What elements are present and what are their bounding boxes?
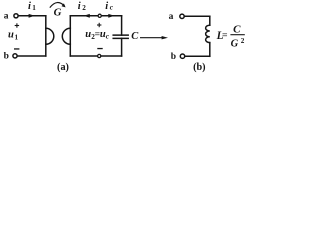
svg-text:(b): (b) xyxy=(193,62,205,73)
svg-text:2: 2 xyxy=(241,37,245,45)
gyrator left semicircle xyxy=(46,28,54,44)
svg-text:G: G xyxy=(231,38,239,49)
svg-text:1: 1 xyxy=(15,34,19,42)
svg-text:u: u xyxy=(8,30,14,41)
svg-text:a: a xyxy=(169,12,174,22)
svg-text:b: b xyxy=(4,52,9,62)
gyrator arc arrowhead xyxy=(62,3,66,7)
node on bottom wire of port2 xyxy=(98,54,101,57)
current arrow ic (pointing right) xyxy=(108,14,114,18)
terminal b (left circuit) xyxy=(13,54,17,58)
inductor L coil xyxy=(206,25,210,42)
capacitor branch lower stub xyxy=(121,38,123,56)
svg-text:1: 1 xyxy=(32,4,36,12)
wire b to gyrator port1 bottom xyxy=(17,55,46,57)
svg-text:b: b xyxy=(171,52,176,62)
capacitor C bottom plate xyxy=(113,37,128,39)
equivalence arrow xyxy=(140,37,164,39)
fraction bar xyxy=(230,34,244,36)
minus sign of u2 xyxy=(97,48,102,49)
svg-text:C: C xyxy=(233,24,241,36)
svg-text:c: c xyxy=(110,4,114,12)
svg-text:G: G xyxy=(54,6,62,18)
wire gyrator port2 top to capacitor branch xyxy=(70,15,121,17)
gyrator port1 vertical line xyxy=(45,16,47,56)
svg-text:c: c xyxy=(106,32,110,40)
wire gyrator port2 bottom to capacitor branch xyxy=(70,55,121,57)
circuit b: terminal b xyxy=(180,54,184,58)
plus sign of u2 xyxy=(97,23,101,27)
svg-text:a: a xyxy=(4,11,9,21)
gyrator arc symbol over G xyxy=(50,3,65,8)
circuit b: bottom wire xyxy=(185,55,210,57)
svg-text:(a): (a) xyxy=(57,62,69,73)
svg-text:i: i xyxy=(28,1,31,12)
svg-text:i: i xyxy=(78,1,81,12)
circuit b: right branch lower stub xyxy=(209,43,211,57)
plus sign of u1 xyxy=(15,23,19,27)
gyrator port2 vertical line xyxy=(69,16,71,56)
wire a to gyrator port1 top xyxy=(18,15,46,17)
circuit b: top wire xyxy=(184,15,210,17)
capacitor branch upper stub xyxy=(121,16,123,35)
svg-text:2: 2 xyxy=(82,4,86,12)
minus sign of u1 xyxy=(14,48,19,49)
terminal a (left circuit) xyxy=(14,14,18,18)
node on top wire of port2 xyxy=(98,14,101,17)
svg-text:=: = xyxy=(222,30,228,41)
capacitor C top plate xyxy=(113,34,128,36)
svg-text:C: C xyxy=(131,31,139,42)
gyrator right semicircle xyxy=(62,28,70,44)
current arrow i2 (pointing left) xyxy=(84,14,90,18)
circuit b: right branch upper stub xyxy=(209,16,211,25)
current arrow i1 xyxy=(29,14,35,18)
circuit b: terminal a xyxy=(180,14,184,18)
svg-text:i: i xyxy=(105,1,108,12)
